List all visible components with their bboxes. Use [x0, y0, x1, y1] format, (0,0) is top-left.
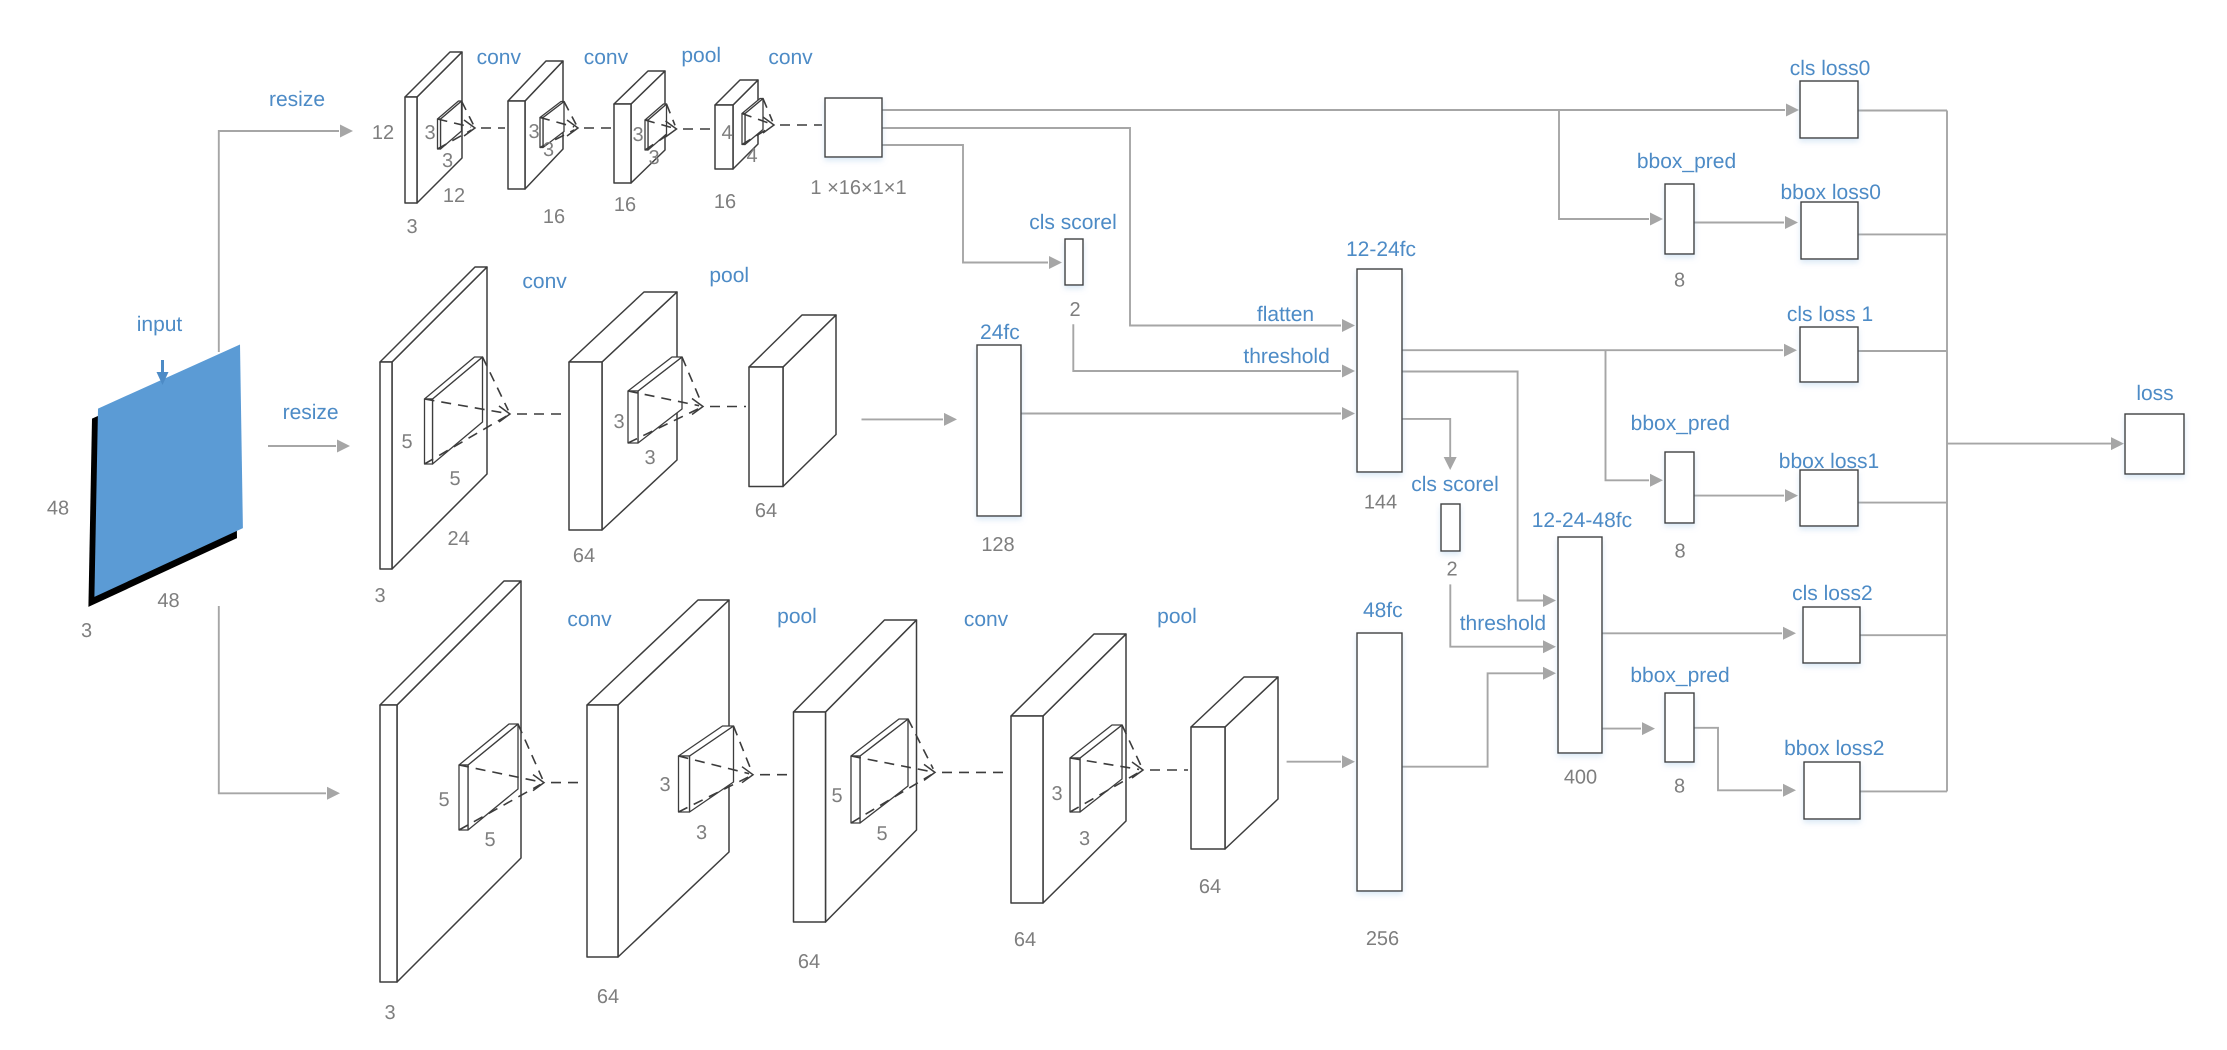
wire cls-loss0 out [1858, 110, 1947, 112]
svg-text:3: 3 [81, 620, 92, 642]
svg-text:pool: pool [709, 264, 749, 287]
wire cls-loss1 out [1858, 350, 1947, 352]
svg-text:5: 5 [438, 789, 449, 811]
svg-text:input: input [137, 313, 183, 336]
wire conv-out cls-loss0 [882, 109, 1785, 111]
input arrow [157, 360, 169, 385]
conv layer 48x48x3 [380, 581, 521, 982]
pool layer 16 (d) [715, 80, 758, 169]
svg-text:3: 3 [659, 774, 670, 796]
svg-text:12-24fc: 12-24fc [1346, 238, 1416, 261]
svg-text:1 ×16×1×1: 1 ×16×1×1 [810, 177, 906, 199]
pool layer 64 (m3) [749, 315, 836, 487]
kernel 3x3 (b4) [1070, 725, 1122, 812]
svg-text:3: 3 [424, 122, 435, 144]
svg-text:64: 64 [1199, 876, 1221, 898]
wire 12-24fc down to cls-score2 [1402, 419, 1450, 458]
svg-text:3: 3 [648, 147, 659, 169]
svg-text:4: 4 [746, 145, 757, 167]
svg-text:threshold: threshold [1243, 345, 1329, 368]
svg-text:8: 8 [1674, 775, 1685, 797]
cone (b3) [851, 719, 933, 823]
svg-text:16: 16 [614, 194, 636, 216]
wire bbox_pred1 to bbox-loss1 [1694, 495, 1784, 497]
bbox loss0 box [1801, 202, 1858, 259]
svg-text:64: 64 [798, 951, 820, 973]
input image [94, 345, 243, 597]
svg-text:conv: conv [522, 270, 567, 293]
svg-text:48fc: 48fc [1363, 599, 1403, 622]
svg-text:3: 3 [374, 585, 385, 607]
dash b3-b4 [942, 771, 1008, 773]
wire bbox-loss1 out [1858, 502, 1947, 504]
svg-text:16: 16 [543, 206, 565, 228]
svg-text:cls loss0: cls loss0 [1790, 57, 1871, 80]
kernel 3x3 (c) [645, 104, 667, 150]
cone (b2) [679, 726, 752, 812]
cls loss0 box [1800, 81, 1858, 138]
svg-text:bbox_pred: bbox_pred [1630, 664, 1729, 687]
svg-text:48: 48 [47, 498, 69, 520]
svg-text:bbox loss2: bbox loss2 [1784, 737, 1884, 760]
wire to loss [1947, 443, 2111, 445]
cone (c) [645, 104, 675, 150]
kernel 5x5 (b3) [851, 719, 908, 823]
bbox_pred1 box [1665, 452, 1694, 523]
svg-text:3: 3 [406, 216, 417, 238]
wire 12-24fc to cls-loss1 [1402, 349, 1783, 351]
conv layer 16 (b) [508, 61, 563, 189]
svg-text:3: 3 [442, 150, 453, 172]
dash m2-m3 [710, 406, 746, 408]
svg-text:conv: conv [567, 608, 612, 631]
svg-text:64: 64 [597, 986, 619, 1008]
wire 12-24-48fc to cls-loss2 [1602, 632, 1782, 634]
svg-text:conv: conv [768, 46, 813, 69]
fc box 12-24fc [1357, 269, 1402, 472]
conv layer 12x12x3 [405, 52, 462, 203]
dash a-b [481, 127, 505, 129]
svg-text:12: 12 [372, 122, 394, 144]
svg-text:3: 3 [543, 139, 554, 161]
svg-text:cls scorel: cls scorel [1411, 473, 1499, 496]
wire into 48fc [1287, 761, 1341, 763]
svg-text:3: 3 [1079, 828, 1090, 850]
svg-text:5: 5 [831, 785, 842, 807]
fc box 12-24-48fc [1558, 537, 1602, 753]
svg-text:conv: conv [964, 608, 1009, 631]
svg-text:flatten: flatten [1257, 303, 1314, 326]
svg-text:conv: conv [584, 46, 629, 69]
svg-text:pool: pool [681, 44, 721, 67]
svg-text:3: 3 [384, 1002, 395, 1024]
wire 24fc to 12-24fc [1021, 413, 1341, 415]
cone (m1) [425, 357, 509, 464]
kernel 3x3 (b) [540, 102, 564, 148]
svg-text:4: 4 [721, 122, 732, 144]
conv layer 24x24x3 [380, 267, 487, 569]
wire to cls-score0 [882, 145, 1048, 263]
fc box 24fc [977, 345, 1021, 516]
dash c-d [683, 128, 712, 130]
svg-text:cls loss2: cls loss2 [1792, 582, 1873, 605]
svg-text:bbox_pred: bbox_pred [1637, 150, 1736, 173]
svg-text:3: 3 [528, 121, 539, 143]
wire 12-24-48fc to bbox_pred2 [1602, 728, 1641, 730]
svg-text:24: 24 [447, 528, 469, 550]
svg-text:12-24-48fc: 12-24-48fc [1532, 509, 1632, 532]
conv layer 64 (m2) [569, 292, 677, 530]
svg-text:bbox loss1: bbox loss1 [1779, 450, 1879, 473]
cone (m2) [628, 357, 701, 443]
cone (a) [438, 101, 474, 149]
svg-text:5: 5 [484, 829, 495, 851]
svg-text:3: 3 [1051, 783, 1062, 805]
svg-text:128: 128 [981, 534, 1014, 556]
svg-text:8: 8 [1674, 270, 1685, 292]
svg-text:3: 3 [644, 447, 655, 469]
wire resize middle arrow [268, 445, 336, 447]
cone (b) [540, 102, 576, 148]
svg-text:16: 16 [714, 191, 736, 213]
svg-text:5: 5 [401, 431, 412, 453]
dash b-c [584, 127, 611, 129]
wire bbox-loss2 out [1860, 790, 1947, 792]
cls loss2 box [1803, 607, 1860, 663]
svg-text:2: 2 [1069, 299, 1080, 321]
svg-text:24fc: 24fc [980, 321, 1020, 344]
svg-text:8: 8 [1674, 540, 1685, 562]
kernel 4x4 (d) [742, 99, 763, 145]
conv layer 64 (b4) [1011, 634, 1126, 903]
bbox loss2 box [1804, 762, 1860, 819]
svg-text:3: 3 [696, 822, 707, 844]
bbox loss1 box [1800, 470, 1858, 526]
pool layer 64 (b3) [794, 620, 917, 922]
wire pool64 to 24fc [862, 418, 944, 420]
dash d-box [780, 124, 822, 126]
svg-text:5: 5 [449, 468, 460, 490]
wire bbox_pred0 to bbox-loss0 [1694, 222, 1784, 224]
bbox_pred2 box [1665, 693, 1694, 762]
kernel 3x3 (m2) [628, 357, 682, 443]
cone (d) [742, 99, 773, 145]
dash m1-m2 [517, 413, 566, 415]
wire 12-24fc to 12-24-48fc [1402, 372, 1543, 601]
svg-text:3: 3 [632, 124, 643, 146]
pool layer 64 (b5) [1191, 677, 1278, 849]
svg-text:cls loss 1: cls loss 1 [1787, 303, 1873, 326]
wire bbox-loss0 out [1858, 233, 1947, 235]
kernel 5x5 (b1) [459, 724, 518, 830]
svg-text:pool: pool [777, 605, 817, 628]
kernel 5x5 (m1) [425, 357, 483, 464]
wire threshold-1 [1073, 324, 1341, 371]
wire resize bottom branch [219, 606, 326, 793]
svg-text:256: 256 [1366, 928, 1399, 950]
dash b2-b3 [760, 774, 790, 776]
conv layer 64 (b2) [587, 600, 729, 957]
wire branch to bbox_pred1 [1606, 350, 1650, 480]
svg-text:bbox loss0: bbox loss0 [1780, 181, 1880, 204]
cone (b4) [1070, 725, 1141, 812]
svg-text:2: 2 [1446, 559, 1457, 581]
svg-text:resize: resize [269, 88, 325, 111]
svg-text:resize: resize [283, 401, 339, 424]
wire cls-loss2 out [1860, 634, 1947, 636]
conv layer 16 (c) [614, 71, 665, 183]
svg-text:64: 64 [755, 500, 777, 522]
wire flatten [882, 128, 1341, 326]
svg-text:64: 64 [1014, 929, 1036, 951]
dash b4-b5 [1150, 769, 1188, 771]
wire bbox_pred2 to bbox-loss2 [1694, 728, 1782, 791]
svg-text:5: 5 [876, 823, 887, 845]
svg-text:cls scorel: cls scorel [1029, 211, 1117, 234]
svg-text:48: 48 [157, 590, 179, 612]
svg-text:64: 64 [573, 545, 595, 567]
kernel 3x3 (b2) [679, 726, 734, 812]
wire branch to bbox_pred0 [1559, 110, 1649, 219]
svg-text:pool: pool [1157, 605, 1197, 628]
kernel 3x3 (a) [438, 101, 462, 149]
svg-text:bbox_pred: bbox_pred [1631, 412, 1730, 435]
cls score1 box [1441, 504, 1460, 551]
svg-text:144: 144 [1364, 492, 1397, 514]
svg-text:threshold: threshold [1460, 612, 1546, 635]
loss box [2125, 414, 2184, 474]
svg-text:3: 3 [613, 411, 624, 433]
fc box 48fc [1357, 633, 1402, 891]
wire trunk [1946, 111, 1948, 792]
wire 48fc to 12-24-48fc [1402, 673, 1543, 766]
cone (b1) [459, 724, 542, 830]
bbox_pred0 box [1665, 184, 1694, 254]
cls loss1 box [1800, 327, 1858, 382]
conv output 1x16x1x1 [825, 98, 882, 157]
cls score0 box [1065, 239, 1083, 285]
dash b1-b2 [551, 782, 584, 784]
wire resize top branch [219, 131, 339, 352]
svg-text:12: 12 [443, 185, 465, 207]
input image back slab [88, 355, 237, 607]
wire threshold-2 [1450, 584, 1543, 646]
svg-text:400: 400 [1564, 767, 1597, 789]
svg-text:conv: conv [477, 46, 522, 69]
svg-text:loss: loss [2136, 382, 2173, 405]
